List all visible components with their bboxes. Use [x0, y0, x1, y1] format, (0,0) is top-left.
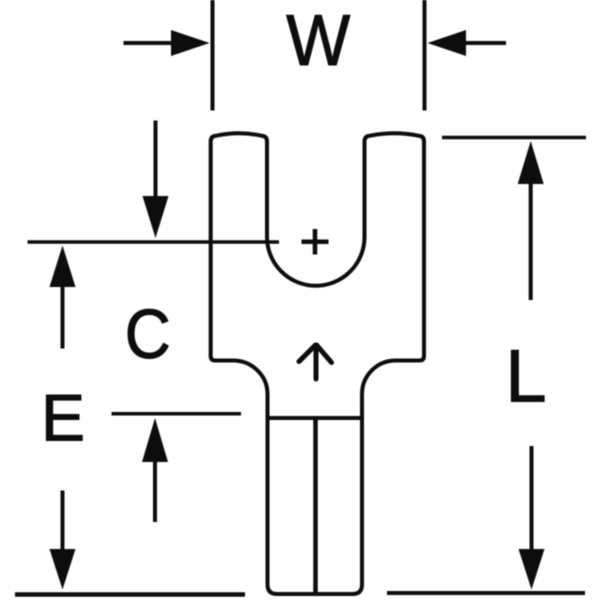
bottom-left base line	[15, 592, 245, 597]
C up arrow head	[50, 246, 76, 288]
W arrow left head	[171, 30, 210, 56]
W arrow left shaft	[124, 41, 173, 45]
W extension line left	[211, 0, 215, 111]
C up arrow shaft	[61, 286, 65, 349]
L up arrow shaft	[529, 183, 533, 300]
L down arrow shaft	[530, 446, 534, 551]
E up arrow head	[142, 418, 168, 462]
E down arrow shaft	[61, 491, 65, 552]
barrel center line	[313, 418, 318, 592]
C down arrow head	[143, 196, 169, 238]
L down arrow head	[519, 549, 545, 590]
C down arrow shaft	[154, 121, 158, 200]
bottom-right base line	[387, 591, 585, 595]
svg-text:W: W	[286, 1, 350, 81]
E up arrow shaft	[153, 461, 157, 522]
W arrow right shaft	[466, 41, 506, 45]
svg-text:L: L	[505, 335, 546, 418]
C reference line	[28, 240, 280, 244]
L up arrow head	[518, 141, 544, 184]
W arrow right head	[428, 30, 467, 56]
barrel seam	[268, 416, 363, 420]
plus mark	[302, 229, 329, 255]
terminal outline	[211, 133, 424, 594]
W extension line right	[423, 0, 427, 111]
E down arrow head	[50, 549, 76, 590]
svg-text:E: E	[41, 381, 85, 455]
E reference line	[112, 412, 242, 416]
inner up-arrow symbol	[299, 345, 332, 379]
svg-text:C: C	[125, 295, 171, 373]
L top reference line	[442, 136, 586, 140]
